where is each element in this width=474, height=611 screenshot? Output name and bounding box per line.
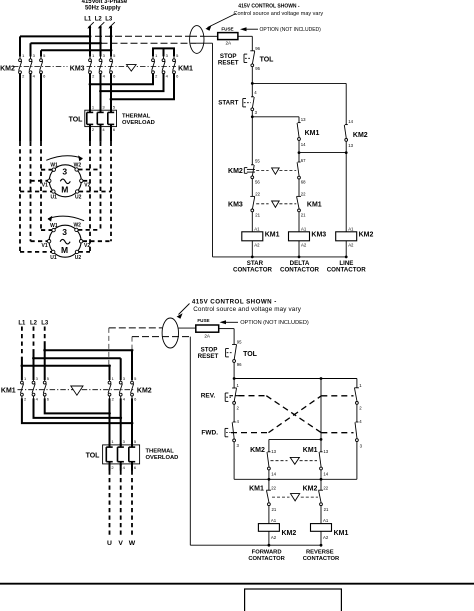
svg-text:95: 95 [237,340,242,345]
svg-text:TOL: TOL [69,116,84,123]
svg-text:KM1: KM1 [303,447,318,454]
svg-text:THERMAL: THERMAL [146,448,175,454]
svg-text:CONTACTOR: CONTACTOR [280,267,319,274]
svg-text:415V CONTROL SHOWN -: 415V CONTROL SHOWN - [192,298,277,305]
svg-text:W: W [129,540,136,547]
svg-text:KM1: KM1 [249,485,264,492]
svg-text:A1: A1 [348,226,354,231]
svg-text:50Hz Supply: 50Hz Supply [85,6,121,12]
svg-text:U2: U2 [75,195,82,201]
svg-text:L1: L1 [84,16,92,22]
svg-text:14: 14 [348,119,353,124]
svg-text:13: 13 [348,143,353,148]
svg-text:KM3: KM3 [311,232,326,239]
svg-text:415V CONTROL SHOWN -: 415V CONTROL SHOWN - [238,4,300,10]
svg-text:CONTACTOR: CONTACTOR [327,267,366,274]
svg-text:22: 22 [255,191,260,196]
svg-text:KM1: KM1 [1,387,16,394]
svg-text:RESET: RESET [198,353,219,360]
svg-text:W1: W1 [50,162,58,168]
svg-text:U1: U1 [51,195,58,201]
svg-text:KM2: KM2 [137,387,152,394]
svg-text:OVERLOAD: OVERLOAD [146,455,179,461]
svg-text:KM1: KM1 [178,65,193,72]
svg-text:2A: 2A [225,41,232,46]
svg-text:KM3: KM3 [228,201,243,208]
svg-text:A2: A2 [271,535,277,540]
svg-text:REV.: REV. [201,392,216,399]
svg-text:13: 13 [301,117,306,122]
svg-text:KM3: KM3 [70,65,85,72]
svg-text:21: 21 [272,507,277,512]
svg-text:KM2: KM2 [228,168,243,175]
svg-text:68: 68 [301,180,306,185]
svg-text:TOL: TOL [260,57,275,64]
svg-text:KM1: KM1 [265,232,280,239]
svg-text:U: U [107,540,112,547]
svg-text:KM2: KM2 [359,232,374,239]
svg-text:KM2: KM2 [282,530,297,537]
svg-text:V: V [118,540,123,547]
svg-text:M: M [61,185,68,195]
svg-text:13: 13 [323,449,328,454]
svg-text:95: 95 [255,66,260,71]
svg-text:KM2: KM2 [250,447,265,454]
svg-text:START: START [218,100,238,107]
svg-text:21: 21 [324,507,329,512]
svg-text:A2: A2 [348,243,354,248]
svg-text:14: 14 [301,142,306,147]
svg-text:L1: L1 [18,321,26,327]
svg-text:L2: L2 [95,16,103,22]
svg-text:TOL: TOL [86,453,101,460]
svg-text:W1: W1 [50,223,58,229]
svg-text:96: 96 [237,362,242,367]
svg-text:L2: L2 [30,321,38,327]
svg-text:OPTION (NOT INCLUDED): OPTION (NOT INCLUDED) [260,27,322,33]
svg-text:W2: W2 [73,223,81,229]
svg-text:96: 96 [255,46,260,51]
svg-text:22: 22 [271,486,276,491]
svg-text:THERMAL: THERMAL [122,114,151,120]
svg-text:U1: U1 [50,255,57,261]
svg-text:13: 13 [271,449,276,454]
svg-text:56: 56 [255,179,260,184]
svg-text:FORWARD: FORWARD [252,550,282,556]
svg-text:21: 21 [255,212,260,217]
svg-text:CONTACTOR: CONTACTOR [233,267,272,274]
svg-text:W2: W2 [74,162,82,168]
svg-text:22: 22 [301,191,306,196]
svg-text:A2: A2 [301,243,307,248]
svg-text:21: 21 [301,212,306,217]
svg-text:2A: 2A [204,334,211,339]
svg-text:3: 3 [62,167,67,177]
svg-text:55: 55 [255,159,260,164]
svg-text:A2: A2 [254,243,260,248]
svg-text:KM1: KM1 [334,530,349,537]
svg-text:FUSE: FUSE [221,27,233,32]
svg-text:A1: A1 [271,518,277,523]
svg-text:FUSE: FUSE [197,318,209,323]
svg-text:OPTION (NOT INCLUDED): OPTION (NOT INCLUDED) [240,320,309,326]
svg-text:FWD.: FWD. [201,430,218,437]
svg-text:KM2: KM2 [0,65,15,72]
svg-text:V1: V1 [42,182,48,188]
svg-text:CONTACTOR: CONTACTOR [303,556,340,562]
svg-text:L3: L3 [105,16,113,22]
svg-text:14: 14 [323,472,328,477]
svg-text:Control source and voltage may: Control source and voltage may vary [234,11,324,17]
svg-text:415Volt 3-Phase: 415Volt 3-Phase [82,0,128,5]
svg-text:L3: L3 [41,321,49,327]
svg-text:KM1: KM1 [305,130,320,137]
svg-text:A1: A1 [323,518,329,523]
svg-text:REVERSE: REVERSE [306,550,334,556]
svg-text:OVERLOAD: OVERLOAD [122,120,155,126]
svg-text:14: 14 [271,472,276,477]
svg-text:KM1: KM1 [307,201,322,208]
svg-text:TOL: TOL [243,351,258,358]
svg-text:22: 22 [323,486,328,491]
svg-text:A2: A2 [323,535,329,540]
svg-text:67: 67 [301,158,306,163]
svg-text:KM2: KM2 [353,132,368,139]
svg-text:M: M [61,245,68,255]
svg-text:Control source and voltage may: Control source and voltage may vary [193,306,302,313]
svg-text:U2: U2 [75,255,82,261]
svg-text:KM2: KM2 [303,485,318,492]
svg-text:3: 3 [62,227,67,237]
svg-text:V1: V1 [42,243,48,249]
svg-text:CONTACTOR: CONTACTOR [248,556,285,562]
svg-text:A1: A1 [254,226,260,231]
svg-text:RESET: RESET [218,60,239,67]
svg-text:A1: A1 [301,226,307,231]
